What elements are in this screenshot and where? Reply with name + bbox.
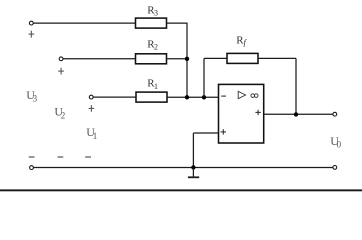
svg-text:1: 1 bbox=[154, 82, 158, 91]
svg-text:0: 0 bbox=[337, 139, 342, 149]
svg-text:2: 2 bbox=[61, 111, 65, 121]
svg-text:3: 3 bbox=[154, 9, 158, 18]
svg-text:2: 2 bbox=[154, 43, 158, 52]
svg-text:1: 1 bbox=[93, 131, 98, 141]
svg-text:f: f bbox=[244, 37, 248, 47]
svg-text:3: 3 bbox=[33, 93, 38, 103]
